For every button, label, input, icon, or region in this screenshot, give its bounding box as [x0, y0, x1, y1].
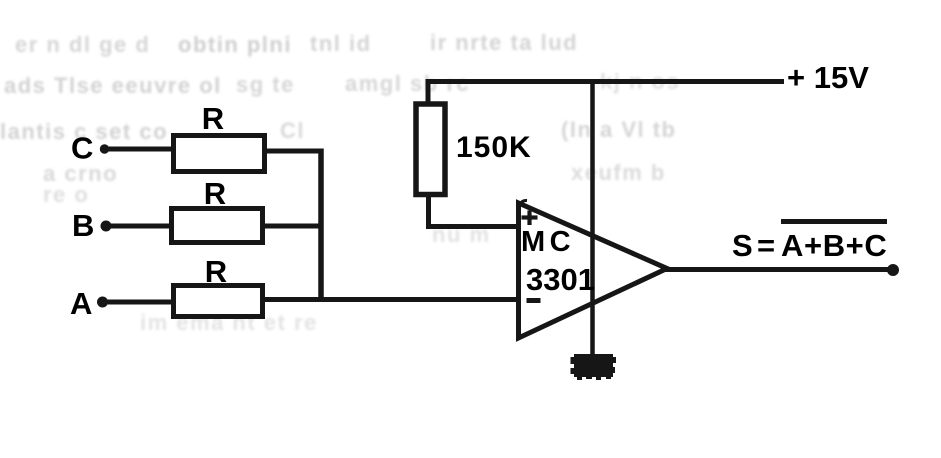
wire C resistor to summing bus: [264, 149, 323, 154]
wire 150K bottom lead to op-amp non-inverting input: [429, 194, 520, 227]
wire +15V supply rail: [426, 79, 784, 84]
pin - (inverting) mark: [527, 298, 541, 303]
svg-text:150K: 150K: [456, 131, 532, 164]
svg-text:A: A: [70, 286, 92, 321]
svg-text:+ 15V: + 15V: [787, 60, 869, 95]
overline (NOR bar) over A+B+C: [781, 219, 887, 224]
wire A resistor to op-amp inverting input: [262, 297, 519, 302]
svg-text:Cl: Cl: [280, 118, 305, 143]
wire B resistor to summing bus: [262, 224, 323, 229]
pin + (non-inverting) mark: [522, 211, 538, 226]
resistor R (input C): [174, 136, 265, 172]
op-amp U1 MC3301 triangle: [519, 203, 668, 338]
svg-text:C: C: [71, 131, 93, 166]
svg-text:obtin plni: obtin plni: [178, 32, 292, 57]
svg-text:B: B: [72, 208, 94, 243]
svg-text:MC: MC: [521, 226, 575, 258]
svg-text:ir nrte ta lud: ir nrte ta lud: [430, 30, 578, 55]
svg-text:sg te: sg te: [236, 72, 295, 97]
svg-text:tnl id: tnl id: [310, 31, 372, 56]
wire V+ supply down through op-amp to ground: [590, 81, 595, 356]
svg-text:R: R: [205, 254, 227, 289]
svg-text:re o: re o: [43, 182, 89, 207]
svg-text:xeufm b: xeufm b: [571, 160, 666, 185]
resistor 150K: [416, 104, 445, 195]
wire op-amp output: [665, 267, 893, 272]
node output terminal dot: [887, 264, 899, 276]
svg-text:(In a Vl tb: (In a Vl tb: [561, 117, 677, 142]
resistor R (input A): [174, 286, 263, 317]
svg-text:ads Tlse eeuvre ol: ads Tlse eeuvre ol: [4, 73, 222, 98]
node B input terminal: [72, 208, 112, 243]
node C input terminal: [71, 131, 109, 166]
resistor R (input B): [172, 209, 263, 243]
svg-text:R: R: [204, 176, 226, 211]
wire B input: [106, 224, 171, 229]
node A input terminal: [70, 286, 108, 321]
svg-text:3301: 3301: [526, 262, 595, 297]
svg-text:er n dl ge d: er n dl ge d: [15, 32, 150, 57]
wire A input: [102, 300, 173, 305]
ground symbol: [571, 354, 617, 380]
svg-text:R: R: [202, 101, 224, 136]
wire 150K top lead to rail: [426, 79, 431, 105]
wire summing junction bus: [318, 149, 324, 299]
wire C input: [105, 147, 173, 152]
